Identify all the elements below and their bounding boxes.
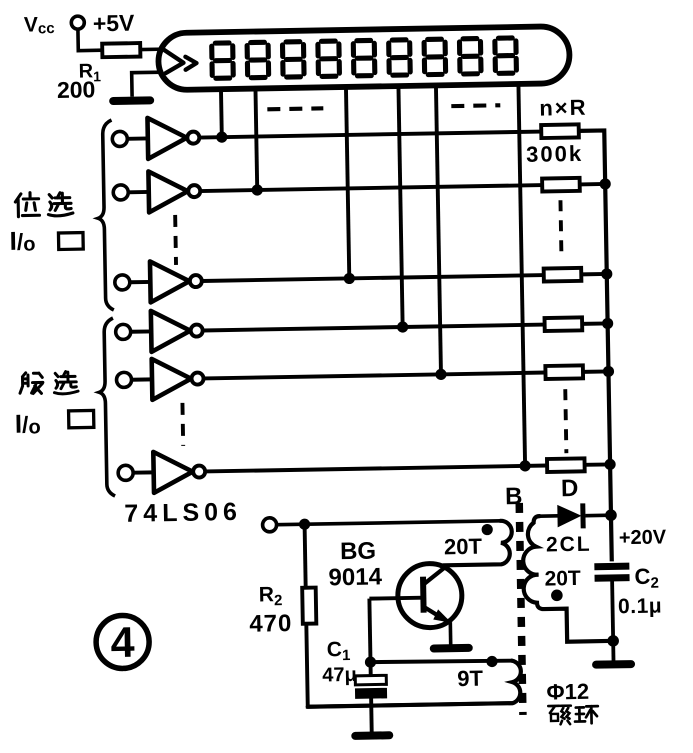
- wire base node down: [369, 599, 370, 676]
- svg-text:20T: 20T: [544, 567, 581, 591]
- svg-text:47μ: 47μ: [322, 664, 357, 687]
- junction node base-C1: [365, 656, 376, 667]
- wire emitter to ground: [449, 622, 453, 645]
- wire display column 4: [398, 85, 402, 327]
- junction bus node 4: [602, 318, 613, 329]
- svg-text:+5V: +5V: [93, 10, 136, 37]
- dashed wire (more gates) group2: [180, 403, 185, 446]
- svg-text:n×R: n×R: [539, 95, 588, 121]
- dashed wire (more resistors) 1: [560, 200, 561, 260]
- svg-text:D: D: [561, 475, 579, 502]
- inverter U1c 74LS06: [115, 275, 130, 290]
- resistor Rp6: [547, 458, 585, 472]
- svg-text:BG: BG: [340, 538, 376, 566]
- wire node to ground: [611, 641, 615, 661]
- resistor Rp5: [545, 365, 583, 379]
- wire C2 to node: [612, 578, 613, 641]
- junction node 6: [519, 460, 530, 471]
- label I/O port 1 kou: [58, 233, 83, 250]
- svg-text:74LS06: 74LS06: [124, 498, 242, 528]
- dashed wire (more resistors) 2: [565, 389, 566, 453]
- wire C1 to ground: [369, 698, 374, 733]
- svg-text:9014: 9014: [328, 563, 383, 591]
- svg-text:9T: 9T: [457, 666, 484, 691]
- junction node 2: [252, 184, 263, 195]
- winding 20T secondary dot: [551, 589, 563, 601]
- wire input to winding: [277, 521, 501, 525]
- inverter U1b 74LS06: [113, 185, 128, 200]
- transistor Q1 collector lead: [423, 566, 447, 584]
- svg-text:4: 4: [110, 619, 135, 667]
- winding 20T secondary: [522, 515, 608, 642]
- wire display column 1: [219, 88, 224, 137]
- wire Vcc to R1: [78, 29, 102, 51]
- junction bus node 5: [603, 366, 614, 377]
- junction node 5: [435, 369, 446, 380]
- label segment-select (duan): [20, 372, 43, 393]
- wire +20V bus: [579, 130, 612, 561]
- junction node +20V: [605, 509, 617, 521]
- terminal Vcc: [71, 16, 84, 29]
- capacitor C1 plus plate: [355, 675, 386, 685]
- wire row 5: [204, 373, 546, 379]
- ground G4: [596, 660, 631, 669]
- winding 20T primary: [443, 521, 513, 566]
- svg-text:Φ12: Φ12: [546, 679, 589, 705]
- terminal oscillator input: [262, 518, 276, 532]
- wire winding to diode: [539, 514, 558, 518]
- label segment-select (xuan): [54, 371, 78, 394]
- figure number 4: [96, 615, 150, 669]
- brace segment-select group: [98, 318, 116, 496]
- dashed wire (more columns) left: [267, 106, 323, 111]
- wire R2 top: [305, 524, 306, 587]
- dashed wire (more columns) right: [451, 103, 500, 108]
- winding 9T: [307, 660, 521, 706]
- winding 9T dot: [486, 656, 497, 667]
- wire Rp6 to bus: [585, 462, 610, 466]
- inverter U1f 74LS06: [118, 465, 133, 480]
- wire display column 6: [518, 83, 525, 466]
- junction node 3: [344, 273, 355, 284]
- wire R2 bottom: [306, 620, 512, 707]
- wire row 6: [205, 465, 547, 471]
- resistor Rp4: [545, 317, 583, 331]
- wire Rp3 to bus: [581, 272, 606, 276]
- brace digit-select group: [96, 120, 114, 310]
- transformer core: [519, 503, 523, 715]
- svg-text:0.1μ: 0.1μ: [618, 595, 662, 619]
- svg-text:+20V: +20V: [619, 526, 667, 549]
- svg-text:200: 200: [57, 76, 96, 103]
- winding 20T primary dot: [482, 524, 493, 535]
- label digit-select (xuan): [48, 192, 73, 216]
- label magnetic-ring (huan): [575, 706, 598, 723]
- svg-text:470: 470: [249, 610, 293, 638]
- junction node 1: [216, 131, 227, 142]
- junction node R2 top: [299, 519, 310, 530]
- wire Rp4 to bus: [582, 321, 607, 325]
- wire row 4: [203, 325, 545, 331]
- transistor Q1 base bar: [420, 577, 427, 613]
- wire row 1: [199, 132, 541, 138]
- junction node 4: [397, 321, 408, 332]
- capacitor C1 minus plate: [355, 688, 386, 698]
- resistor Rp3: [544, 268, 582, 282]
- transistor Q1 body: [397, 563, 462, 628]
- capacitor C2: [594, 563, 629, 571]
- junction bus node 2: [599, 178, 610, 189]
- wire display column 2: [255, 88, 257, 190]
- label I/O port 2 kou: [69, 410, 94, 427]
- inverter U1a 74LS06: [112, 131, 127, 146]
- inverter U1e 74LS06: [116, 372, 131, 387]
- wire display column 3: [346, 86, 349, 278]
- resistor R2: [302, 588, 316, 624]
- vacuum fluorescent display DS1 outline: [158, 26, 570, 90]
- junction node C2 bottom: [607, 635, 619, 647]
- ground G1: [113, 96, 150, 105]
- wire diode to bus: [585, 513, 610, 517]
- wire base node to 9T: [370, 660, 511, 663]
- diode D 2CL: [557, 504, 581, 527]
- wire row 3: [202, 275, 544, 281]
- svg-text:300k: 300k: [526, 141, 583, 167]
- wire Rp5 to bus: [583, 369, 608, 373]
- junction bus node 3: [601, 268, 612, 279]
- svg-text:20T: 20T: [444, 534, 483, 560]
- filament symbol: [162, 48, 196, 73]
- junction bus node 6: [604, 459, 615, 470]
- wire base lead: [369, 596, 423, 601]
- resistor Rp2: [542, 178, 580, 192]
- inverter U1d 74LS06: [116, 324, 131, 339]
- resistor Rp1: [541, 124, 579, 138]
- wire display column 5: [436, 84, 441, 374]
- svg-text:2CL: 2CL: [546, 533, 592, 557]
- ground G3: [355, 731, 389, 740]
- label digit-select (wei): [15, 192, 39, 216]
- wire filament to ground: [132, 72, 163, 97]
- resistor R1: [102, 43, 140, 57]
- display digits 8888888888: [212, 38, 517, 79]
- wire R1 to filament: [140, 47, 164, 51]
- label magnetic-ring (ci): [548, 706, 571, 725]
- dashed wire (more gates) group1: [173, 215, 178, 265]
- wire Rp2 to bus: [580, 182, 605, 186]
- wire row 2: [200, 185, 542, 191]
- transistor Q1 emitter lead: [424, 606, 451, 623]
- ground G2: [434, 644, 469, 653]
